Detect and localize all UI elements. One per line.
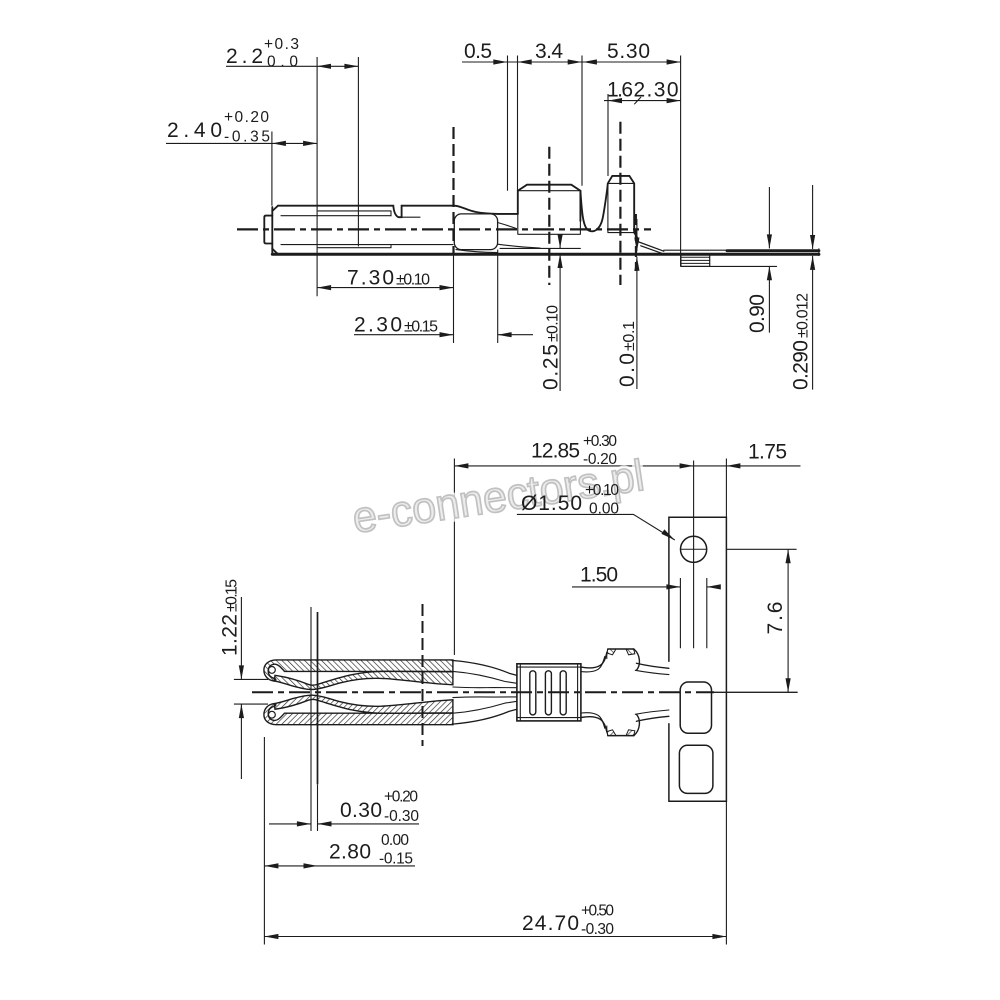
dim 0.90 arrows bbox=[767, 234, 772, 248]
ext x=693.6 hole center bbox=[693, 461, 695, 649]
dim 2.30 arrows bbox=[440, 332, 454, 337]
label 0.90 rotated bbox=[746, 294, 769, 333]
wing chamfer base line bbox=[518, 190, 581, 192]
svg-text:±0.012: ±0.012 bbox=[795, 293, 812, 338]
dim 7.30 arrows bbox=[317, 285, 331, 290]
dim 1.50 bbox=[572, 586, 719, 588]
wire crimp plan rectangle bbox=[517, 664, 581, 721]
dim line 0.5 / 3.4 / 5.30 bbox=[462, 61, 681, 63]
ext x=726.4 above strip bbox=[725, 459, 727, 518]
box left edge bbox=[271, 207, 273, 253]
svg-text:-0.30: -0.30 bbox=[581, 921, 614, 938]
ext y=549.3 bbox=[727, 548, 797, 550]
svg-text:+0.50: +0.50 bbox=[581, 903, 614, 920]
svg-text:+0.20: +0.20 bbox=[224, 109, 269, 126]
inner left side bbox=[607, 649, 608, 659]
section dash line x=549.3 bbox=[548, 147, 550, 285]
label 0.290±0.012 rotated bbox=[790, 293, 813, 390]
dim 12.85 / 1.75 line bbox=[454, 465, 800, 467]
svg-text:2.30: 2.30 bbox=[634, 79, 679, 102]
dim 1.6/2.30 arrows bbox=[608, 98, 622, 103]
dim 0.25 arrows bbox=[558, 234, 563, 248]
dim 2.80 bbox=[264, 865, 415, 867]
dim 24.70 arrows bbox=[264, 934, 278, 939]
svg-text:7.30: 7.30 bbox=[347, 267, 394, 290]
insulation wing inner edges bbox=[608, 183, 634, 232]
dim 12.85 arrows bbox=[454, 463, 468, 468]
pilot hole bbox=[681, 536, 707, 562]
ext line x=317.1 bbox=[316, 57, 318, 296]
ext line x=271.9 bbox=[271, 132, 273, 206]
ext y=679.4 / y=704.1 bbox=[234, 679, 268, 704]
svg-text:±0.15: ±0.15 bbox=[224, 579, 241, 612]
crimp inner edges bbox=[500, 192, 580, 249]
BOTTOM-VIEW-PART bbox=[264, 517, 727, 801]
svg-text:2.80: 2.80 bbox=[329, 841, 371, 864]
svg-text:2.2: 2.2 bbox=[226, 45, 263, 68]
label 0.25±0.10 rotated bbox=[540, 305, 563, 390]
insulation crimp hatched corners bbox=[607, 649, 616, 655]
section dash line x=453.5 bbox=[452, 127, 454, 254]
dim 0.0 vertical bbox=[636, 219, 638, 389]
svg-text:2.40: 2.40 bbox=[167, 119, 222, 142]
inner bottom line bbox=[281, 244, 453, 246]
vertical line x=311 bbox=[310, 607, 312, 831]
crimp top edge before wing bbox=[498, 213, 518, 215]
dim 1.22 vertical bbox=[240, 597, 242, 779]
svg-text:0.5: 0.5 bbox=[464, 40, 492, 63]
outer shell band with rolled curl (hatched) bbox=[264, 660, 453, 681]
svg-text:5.30: 5.30 bbox=[607, 40, 650, 63]
svg-text:0.25: 0.25 bbox=[540, 344, 563, 390]
svg-text:±0.1: ±0.1 bbox=[621, 321, 638, 351]
section dash line x=635.9 bbox=[635, 214, 637, 271]
svg-text:±0.10: ±0.10 bbox=[396, 272, 430, 289]
insulation crimp right S-side bbox=[634, 649, 640, 670]
dim 7.6 arrows bbox=[786, 549, 791, 563]
vertical dash line x=422.5 bbox=[422, 604, 424, 746]
ext line x=497.7 bbox=[497, 250, 499, 343]
ext line x=358.4 bbox=[357, 57, 359, 246]
ext line x=582 bbox=[581, 56, 583, 186]
insulation crimp wing bbox=[607, 176, 634, 233]
neck after crimp bbox=[581, 653, 607, 668]
svg-text:2.30: 2.30 bbox=[354, 314, 402, 337]
strip top thin line bbox=[664, 249, 727, 251]
transition hump rounded rect bbox=[454, 214, 497, 250]
dim 1.22 arrows bbox=[239, 665, 244, 679]
wing right S-curve to tail bbox=[634, 233, 638, 242]
dim 2.2 arrows bbox=[317, 64, 331, 69]
TOP-VIEW-PART bbox=[264, 176, 819, 267]
dim 0.90 vertical bbox=[768, 187, 770, 333]
svg-text:0.0: 0.0 bbox=[616, 353, 639, 387]
svg-text:0.0: 0.0 bbox=[267, 54, 298, 71]
svg-text:3.4: 3.4 bbox=[535, 40, 563, 63]
svg-text:+0.30: +0.30 bbox=[583, 433, 617, 450]
inner top line bbox=[281, 215, 391, 217]
box chamfer top-left bbox=[272, 206, 278, 255]
dim 2.30 leader bbox=[354, 334, 533, 336]
ext hole tangents bbox=[680, 578, 706, 648]
svg-text:Ø1.50: Ø1.50 bbox=[521, 492, 582, 515]
carrier strip outline bbox=[669, 517, 727, 801]
tail slant lines bbox=[638, 242, 664, 254]
U dip between wings bbox=[580, 189, 607, 232]
ARROWHEADS bbox=[239, 59, 815, 939]
dim 24.70 bbox=[264, 936, 726, 938]
dim 0.290 vertical bbox=[812, 185, 814, 390]
transition curves bbox=[456, 223, 540, 253]
dim 7.6 bbox=[787, 549, 789, 692]
insulation crimp top edge bbox=[608, 648, 634, 650]
bent tab bottom line bbox=[710, 265, 777, 267]
lance inner line bbox=[402, 216, 420, 218]
svg-text:-0.35: -0.35 bbox=[224, 129, 270, 146]
svg-text:±0.10: ±0.10 bbox=[545, 305, 562, 342]
svg-text:0.00: 0.00 bbox=[381, 832, 409, 849]
svg-text:+0.10: +0.10 bbox=[585, 482, 619, 499]
svg-text:7.6: 7.6 bbox=[764, 602, 787, 635]
ext y=692.3 right bbox=[714, 691, 798, 693]
terminal side view: front tab bbox=[264, 216, 272, 244]
dim 2.80 arrows bbox=[264, 863, 278, 868]
svg-text:-0.15: -0.15 bbox=[379, 851, 413, 868]
svg-text:-0.30: -0.30 bbox=[384, 808, 419, 825]
section dash line x=620.4 bbox=[619, 122, 621, 285]
svg-text:±0.15: ±0.15 bbox=[404, 319, 438, 336]
dim 0.0 arrows bbox=[634, 238, 639, 252]
ext x=264.4 bbox=[263, 737, 265, 945]
dia leader bbox=[517, 514, 675, 540]
dim 3.4 right arrow bbox=[568, 59, 582, 64]
TOP-VIEW-DIMS bbox=[166, 56, 813, 392]
dim 0.290 arrows bbox=[810, 235, 815, 249]
tick between 1.6 and 2.30 bbox=[634, 97, 641, 104]
centerline bottom view bbox=[252, 691, 714, 693]
strip cutout 2 bbox=[679, 745, 713, 793]
ext x=454.4 bbox=[453, 459, 455, 656]
dia leader arrow bbox=[661, 529, 675, 540]
dim 7.30 line bbox=[317, 287, 453, 289]
dim 5.30 arrows bbox=[583, 59, 597, 64]
svg-text:+0.3: +0.3 bbox=[264, 36, 299, 53]
svg-text:12.85: 12.85 bbox=[531, 440, 580, 463]
strip cutout 1 bbox=[680, 682, 711, 733]
svg-text:24.70: 24.70 bbox=[522, 912, 579, 935]
dim 2.40 arrows bbox=[272, 141, 286, 146]
dim line 1.6 / 2.30 bbox=[604, 100, 681, 102]
ext lines 0.5 pair bbox=[508, 56, 518, 191]
svg-text:1.6: 1.6 bbox=[607, 79, 633, 102]
dim line 2.2 bbox=[226, 65, 358, 67]
label 1.22±0.15 rotated bbox=[219, 579, 242, 656]
bottom heavy seat line bbox=[272, 253, 819, 256]
ext x=726.4 bottom bbox=[725, 801, 727, 944]
curl inner circle bbox=[269, 667, 276, 674]
svg-text:0.90: 0.90 bbox=[746, 294, 769, 333]
serration slots bbox=[530, 671, 536, 715]
dim 0.30 bbox=[269, 823, 419, 825]
ext line x=608 bbox=[607, 94, 609, 176]
spring leaf band (hatched) bbox=[274, 671, 453, 689]
svg-text:1.50: 1.50 bbox=[580, 564, 618, 587]
svg-text:0.290: 0.290 bbox=[790, 340, 813, 390]
svg-text:0.30: 0.30 bbox=[340, 799, 382, 822]
svg-text:-0.20: -0.20 bbox=[583, 451, 617, 468]
svg-text:+0.20: +0.20 bbox=[384, 789, 418, 806]
dim line 2.40 bbox=[166, 142, 317, 144]
dim 1.75 arrow bbox=[726, 463, 740, 468]
dim 0.25 vertical bbox=[559, 235, 561, 392]
label 0.0±0.1 rotated bbox=[616, 321, 639, 387]
ext line x=680.6 bbox=[680, 56, 682, 267]
svg-text:1.22: 1.22 bbox=[219, 614, 242, 656]
stamped window lines bbox=[318, 211, 391, 248]
WATERMARK bbox=[349, 451, 647, 543]
box top edge with lance notch bbox=[278, 206, 498, 218]
label 7.6 rotated bbox=[764, 602, 787, 635]
dim 0.30 arrows bbox=[297, 821, 311, 826]
svg-text:0.00: 0.00 bbox=[589, 501, 619, 518]
dim 0.5 arrows bbox=[493, 59, 507, 64]
serration block below strip bbox=[681, 254, 710, 266]
dim 1.50 arrows bbox=[666, 584, 680, 589]
funnel transition lines bbox=[453, 661, 517, 676]
svg-text:1.75: 1.75 bbox=[748, 441, 787, 464]
strip heavy segment bbox=[727, 249, 819, 252]
vertical line x=317.5 bbox=[317, 612, 319, 784]
wire crimp wing bbox=[518, 185, 581, 221]
centerline top view bbox=[237, 228, 651, 230]
tail to carrier bbox=[636, 663, 669, 668]
BOTTOM-VIEW-DIMS bbox=[234, 459, 801, 945]
strip right end tick bbox=[818, 249, 820, 256]
